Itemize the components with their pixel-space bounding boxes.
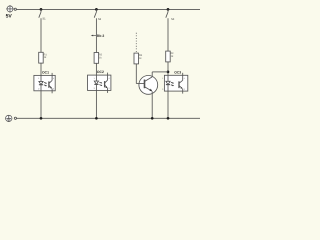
power flag 5V — [6, 5, 14, 13]
pin numbers OC1 — [38, 77, 54, 90]
wire bottom rail — [17, 117, 201, 119]
wire top rail — [16, 8, 200, 10]
wire OC2 to rail — [95, 90, 97, 118]
svg-text:Rb 2: Rb 2 — [97, 34, 104, 38]
switch S2 — [94, 9, 96, 52]
svg-text:3: 3 — [53, 88, 54, 91]
svg-text:1: 1 — [94, 77, 95, 80]
svg-text:S1: S1 — [42, 17, 46, 20]
node collector junction — [167, 71, 170, 74]
pin numbers OC2 — [94, 77, 110, 90]
optocoupler OC3 — [164, 73, 187, 94]
svg-text:2: 2 — [94, 87, 95, 90]
svg-text:OC1: OC1 — [42, 70, 49, 74]
svg-text:S2: S2 — [98, 18, 102, 21]
switch S3 — [166, 9, 168, 51]
svg-text:2: 2 — [162, 88, 163, 91]
label Rb 2 arrow — [91, 35, 97, 37]
node junction S1 top — [40, 8, 43, 11]
node junction S2 top — [95, 8, 98, 11]
wire Rb to base — [135, 64, 137, 84]
wire OC3 to rail — [167, 91, 169, 118]
switch S1 — [39, 9, 41, 52]
svg-text:2: 2 — [38, 88, 39, 91]
optocoupler OC2 — [88, 73, 111, 93]
svg-text:4: 4 — [184, 77, 185, 80]
svg-text:1: 1 — [38, 77, 39, 80]
node junction OC3 bottom — [167, 117, 170, 120]
wire emitter down — [151, 91, 153, 118]
node junction OC1 bottom — [40, 117, 43, 120]
resistor Rb — [134, 53, 139, 64]
transistor Q1 — [139, 76, 158, 95]
svg-text:3: 3 — [184, 88, 185, 91]
wire collector to OC3 node — [151, 72, 153, 77]
wire dashed to Rb — [135, 33, 137, 53]
wire R1 to OC1 — [40, 63, 42, 75]
svg-text:4: 4 — [53, 77, 54, 80]
svg-text:4: 4 — [109, 77, 110, 80]
svg-text:OC3: OC3 — [174, 70, 181, 74]
wire R2 to OC2 — [95, 63, 97, 75]
svg-text:1: 1 — [162, 77, 163, 80]
resistor R2 — [94, 53, 99, 64]
wire Rc to OC3 node — [167, 62, 169, 75]
ground symbol — [6, 115, 12, 121]
svg-text:S3: S3 — [171, 18, 175, 21]
pin numbers OC3 — [162, 77, 184, 91]
node junction emitter bottom — [151, 117, 154, 120]
terminal bottom-left — [14, 117, 16, 119]
svg-text:OC2: OC2 — [97, 70, 104, 74]
resistor Rc — [166, 51, 171, 62]
svg-text:5V: 5V — [6, 14, 13, 20]
node junction S3 top — [167, 8, 170, 11]
svg-text:3: 3 — [109, 87, 110, 90]
resistor R1 — [39, 52, 44, 63]
node junction OC2 bottom — [95, 117, 98, 120]
terminal top-left — [14, 8, 16, 10]
wire OC1 to rail — [40, 91, 42, 119]
optocoupler OC1 — [34, 73, 55, 93]
